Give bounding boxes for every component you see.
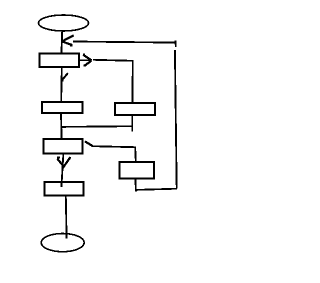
terminator end (bottom ellipse) (41, 234, 84, 252)
process box2 (42, 102, 82, 113)
wire box2 to box4 (60, 113, 63, 139)
wire box4 to box6 (61, 154, 63, 188)
tick diagonal from box4 right (85, 141, 93, 146)
arrowhead down V between box4 and box6 (57, 157, 71, 166)
process box1 (40, 54, 80, 67)
process box5 (120, 162, 154, 179)
wire box1 right to arrow (79, 59, 91, 61)
process box6 (45, 182, 84, 195)
wire feedback right vertical (175, 50, 177, 188)
terminator start (top ellipse) (39, 15, 89, 31)
process box3 (115, 103, 155, 115)
wire feedback right vertical upper stub (175, 40, 177, 47)
arrowhead right-pointing after box1 (83, 55, 92, 66)
wire feedback bottom horizontal (136, 189, 177, 190)
wire box3 to main line horizontal (61, 125, 133, 128)
wire box6 to end ellipse (65, 196, 68, 239)
process box4 (44, 139, 83, 154)
arrowhead left-pointing at node A (62, 35, 73, 45)
wire box3 bottom with overshoot (131, 115, 133, 131)
wire feedback top horizontal (73, 42, 176, 43)
wire box5 to feedback bottom (134, 178, 137, 191)
wire ellipse to box1 (60, 31, 63, 54)
wire box1 to box2 (60, 67, 63, 102)
tick mark on wire box1-box2 (62, 73, 68, 81)
wire box4 to box5 (right, turns down) (93, 146, 136, 162)
wire arrow to box3 (right, turns down) (93, 60, 133, 103)
